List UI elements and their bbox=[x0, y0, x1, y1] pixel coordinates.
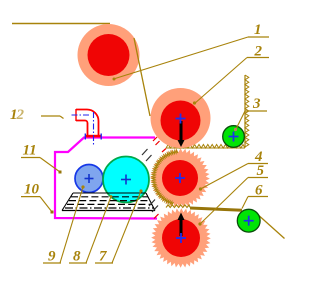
svg-text:5: 5 bbox=[257, 163, 265, 179]
svg-text:2: 2 bbox=[16, 107, 25, 123]
svg-text:10: 10 bbox=[24, 182, 40, 198]
svg-text:11: 11 bbox=[23, 143, 37, 159]
svg-text:1: 1 bbox=[254, 22, 262, 38]
svg-text:3: 3 bbox=[252, 96, 261, 112]
svg-text:7: 7 bbox=[99, 249, 107, 265]
svg-text:9: 9 bbox=[48, 249, 56, 265]
svg-text:8: 8 bbox=[73, 249, 81, 265]
